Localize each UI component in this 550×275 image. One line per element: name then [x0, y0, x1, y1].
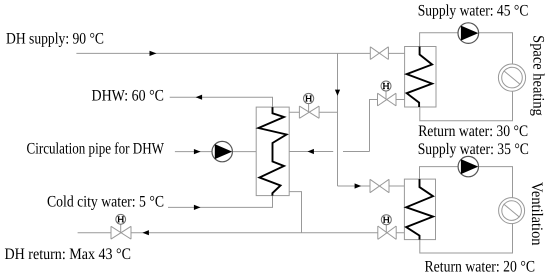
svg-text:Supply water: 45 °C: Supply water: 45 °C	[418, 2, 529, 19]
arrow left on DHW line	[196, 95, 203, 100]
pump ventilation	[458, 156, 478, 176]
svg-text:Return water: 20 °C: Return water: 20 °C	[425, 258, 536, 275]
valve plain on DH supply to space heating HX	[370, 47, 388, 60]
svg-text:Ventilation: Ventilation	[528, 182, 545, 246]
heat exchanger central DHW HX coil	[259, 107, 287, 196]
wire vertical main from DH supply	[337, 53, 339, 186]
arrow down on vertical main	[335, 90, 340, 96]
wire cold city water line	[168, 196, 273, 208]
wire DH return line	[78, 232, 405, 234]
heat exchanger ventilation HX box	[404, 179, 435, 240]
heat exchanger ventilation HX coil	[406, 179, 433, 240]
svg-text:Space heating: Space heating	[530, 35, 547, 116]
wire branch to ventilation valve	[338, 185, 405, 187]
wire central HX outlet to DH return	[289, 192, 302, 233]
svg-text:Cold city water: 5 °C: Cold city water: 5 °C	[47, 193, 164, 210]
valve V4 (H) on DH return	[111, 214, 131, 239]
load space heating radiator	[498, 64, 525, 91]
svg-text:Return water: 30 °C: Return water: 30 °C	[418, 123, 528, 140]
svg-text:Circulation pipe for DHW: Circulation pipe for DHW	[27, 141, 165, 158]
wire ventilation loop	[420, 167, 513, 253]
arrow right on circulation pipe	[194, 149, 201, 154]
wire DHW line	[170, 97, 273, 107]
load ventilation coil	[499, 198, 525, 224]
arrow right on cold city water	[194, 205, 201, 210]
wire circulation pipe	[175, 151, 256, 153]
svg-text:Supply water: 35 °C: Supply water: 35 °C	[418, 141, 529, 158]
wire DH supply line	[76, 52, 404, 54]
pump space heating	[458, 23, 479, 44]
arrow right on ventilation branch	[355, 183, 362, 188]
pump circulation DHW	[212, 141, 232, 161]
svg-text:DHW: 60 °C: DHW: 60 °C	[92, 87, 165, 104]
wire central HX to valve V1	[289, 111, 337, 113]
svg-text:DH return: Max 43 °C: DH return: Max 43 °C	[5, 246, 132, 263]
valve plain on branch to ventilation HX	[370, 179, 389, 192]
arrow left on DH return	[142, 230, 149, 235]
heat exchanger central DHW HX box	[256, 107, 289, 196]
wire heating return crossing line	[289, 100, 405, 152]
valve V1 (H) on central HX primary supply	[299, 93, 319, 118]
heat exchanger space heating HX box	[405, 47, 436, 108]
svg-text:DH supply: 90 °C: DH supply: 90 °C	[6, 31, 104, 48]
arrow right on DH supply	[150, 51, 157, 56]
valve V3 (H) ventilation return	[378, 215, 396, 240]
wire space heating loop	[420, 33, 513, 121]
valve V2 (H) space heating return	[378, 81, 397, 106]
arrow left on heating return crossing	[308, 149, 314, 154]
heat exchanger space heating HX coil	[407, 47, 432, 108]
